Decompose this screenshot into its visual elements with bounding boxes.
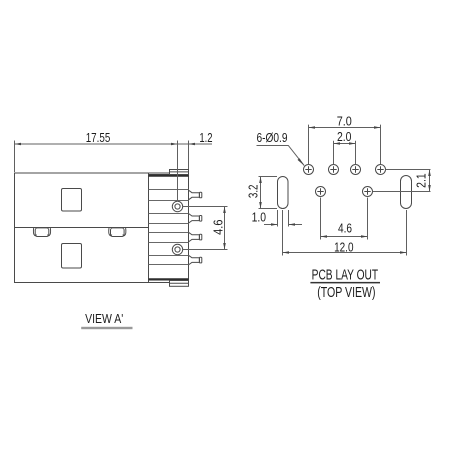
svg-text:PCB LAY OUT: PCB LAY OUT [312,268,379,284]
svg-text:VIEW A': VIEW A' [85,311,123,326]
svg-text:17.55: 17.55 [86,130,111,145]
svg-text:4.6: 4.6 [210,220,225,235]
svg-text:4.6: 4.6 [338,220,352,235]
svg-text:2.0: 2.0 [337,129,352,144]
svg-text:3.2: 3.2 [246,185,261,199]
svg-text:7.0: 7.0 [337,114,352,129]
svg-text:1.0: 1.0 [252,210,266,225]
svg-text:1.2: 1.2 [199,130,212,145]
svg-text:(TOP VIEW): (TOP VIEW) [317,285,375,301]
svg-text:2.1: 2.1 [413,173,428,188]
svg-text:12.0: 12.0 [334,239,353,254]
svg-text:6-Ø0.9: 6-Ø0.9 [257,130,288,145]
